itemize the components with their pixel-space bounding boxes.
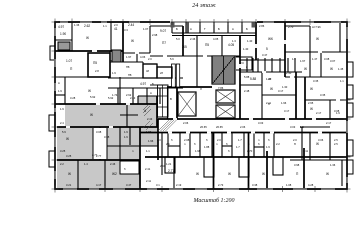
svg-text:п: п [294,142,296,146]
svg-text:2.5: 2.5 [334,138,338,142]
svg-text:Ж: Ж [310,87,313,91]
bathroom box B [157,67,172,78]
svg-text:3.47: 3.47 [262,53,268,57]
svg-text:2.46: 2.46 [110,162,116,166]
walls south room band [145,156,347,158]
svg-text:1.97: 1.97 [126,55,132,59]
svg-text:2.46: 2.46 [190,37,196,41]
svg-text:1.88: 1.88 [204,145,210,149]
svg-text:1.3: 1.3 [232,39,236,43]
svg-text:Ж: Ж [228,172,231,176]
windows in outer walls [55,22,347,189]
white hallway inside gray apartment [93,128,107,159]
svg-text:2.70: 2.70 [247,149,253,153]
svg-text:2.08: 2.08 [184,138,190,142]
walls mid-left block [87,53,89,77]
loggia dark vent marks [171,23,175,28]
svg-text:1.36: 1.36 [330,163,336,167]
svg-text:2.8: 2.8 [95,69,99,73]
svg-text:2.06: 2.06 [183,121,189,125]
walls right-mid block [246,58,248,72]
svg-text:2.98: 2.98 [152,33,158,37]
svg-text:5.9: 5.9 [62,130,66,134]
svg-text:А=7.96: А=7.96 [312,25,321,29]
svg-text:П7: П7 [162,41,166,45]
svg-text:ЖК: ЖК [268,37,273,41]
vent shaft dark box left [58,42,70,50]
interior partition walls [55,22,347,189]
storage closet thick box [88,53,110,77]
svg-text:А: А [58,81,60,85]
bottom-room closet boxes [165,157,283,177]
svg-text:Ж5: Ж5 [182,45,187,49]
wall top-left rooms [71,22,73,51]
svg-text:П5: П5 [93,61,97,65]
svg-text:А: А [232,27,234,31]
corridor walls [158,118,347,120]
svg-text:Ж: Ж [68,172,71,176]
svg-text:2.70: 2.70 [288,25,294,29]
svg-text:4.97: 4.97 [58,25,64,29]
svg-text:1.7: 1.7 [236,145,240,149]
walls of rooms under loggias [196,35,198,56]
outer wall of building [55,22,347,189]
svg-text:2.4: 2.4 [60,121,64,125]
svg-text:3.47: 3.47 [126,183,132,187]
svg-text:2.41: 2.41 [160,164,166,168]
svg-text:В: В [170,97,172,101]
door openings (white gaps) [66,40,340,133]
svg-text:1.30: 1.30 [282,85,288,89]
svg-text:1.21: 1.21 [166,162,172,166]
svg-text:П8: П8 [128,73,132,77]
svg-text:1.07: 1.07 [66,59,72,63]
svg-text:Ж2: Ж2 [112,172,117,176]
svg-text:1.67: 1.67 [300,59,306,63]
svg-text:2.17: 2.17 [326,121,332,125]
svg-text:1.1: 1.1 [340,79,344,83]
svg-text:1.9: 1.9 [60,107,64,111]
svg-text:3.03: 3.03 [290,125,296,129]
svg-text:3.17: 3.17 [278,89,284,93]
svg-text:Б: Б [218,27,220,31]
svg-text:Ж: Ж [88,89,91,93]
svg-text:1.96: 1.96 [148,139,154,143]
room area and dimension labels [58,23,344,187]
svg-text:Ж: Ж [90,113,93,117]
svg-text:1.6: 1.6 [292,57,296,61]
bathroom box A [143,64,157,78]
svg-text:1.5: 1.5 [300,125,304,129]
svg-text:4.06: 4.06 [140,55,146,59]
svg-text:Ж: Ж [270,87,273,91]
svg-text:4.97: 4.97 [140,82,146,86]
walls hall and shafts [110,61,143,63]
svg-text:5.92: 5.92 [108,96,114,100]
loggia strip thin outer edge [170,21,257,23]
svg-text:1.07: 1.07 [143,27,149,31]
svg-text:1.36: 1.36 [74,23,80,27]
svg-text:5.0: 5.0 [176,37,180,41]
utility cell block left of elevator [158,85,169,117]
svg-text:2.06: 2.06 [240,125,246,129]
left facade bay windows [49,46,55,167]
svg-text:Ж: Ж [131,39,134,43]
svg-text:3.08: 3.08 [104,135,110,139]
svg-text:1.45: 1.45 [338,67,344,71]
svg-text:2.77: 2.77 [168,169,174,173]
svg-text:Б: Б [246,27,248,31]
svg-text:1.9: 1.9 [266,145,270,149]
svg-text:П5: П5 [205,43,209,47]
svg-text:1.9: 1.9 [58,89,62,93]
right facade bay windows [347,62,353,174]
svg-text:Ж: Ж [310,107,313,111]
gray apartment floor fills [57,96,158,188]
svg-text:2.43: 2.43 [147,117,153,121]
svg-text:1.9: 1.9 [124,135,128,139]
svg-text:1.08: 1.08 [286,183,292,187]
svg-text:3.98: 3.98 [294,163,300,167]
svg-text:4.05: 4.05 [228,43,234,47]
svg-text:1.1: 1.1 [103,24,107,28]
svg-text:2.0: 2.0 [157,138,161,142]
walls inside gray apartment [156,96,158,127]
svg-text:2.0: 2.0 [217,138,221,142]
svg-text:26.65: 26.65 [200,125,207,129]
svg-text:3.08: 3.08 [96,130,102,134]
svg-text:1.4: 1.4 [84,162,88,166]
svg-text:2.2: 2.2 [60,162,64,166]
svg-text:2.0: 2.0 [148,57,152,61]
svg-text:3.1: 3.1 [156,183,160,187]
svg-text:А: А [150,91,152,95]
svg-text:Ж: Ж [196,172,199,176]
svg-text:Ж: Ж [316,142,319,146]
twin shaft columns by stair [172,64,176,87]
diagonal hatch at corridor west end [143,120,177,131]
svg-text:Ж: Ж [66,137,69,141]
svg-text:3.21: 3.21 [66,183,72,187]
svg-text:Ж: Ж [316,37,319,41]
svg-text:3.07: 3.07 [330,59,336,63]
svg-text:5.92: 5.92 [90,95,96,99]
svg-text:Масштаб 1:200: Масштаб 1:200 [192,197,234,204]
svg-text:2.1: 2.1 [166,142,170,146]
svg-text:3.38: 3.38 [252,183,258,187]
svg-text:2.0: 2.0 [240,61,244,65]
svg-text:3.03: 3.03 [258,121,264,125]
svg-text:1.96: 1.96 [146,130,152,134]
svg-text:1.7: 1.7 [238,138,242,142]
svg-text:2.77: 2.77 [96,154,102,158]
svg-text:1.30: 1.30 [266,77,272,81]
svg-text:Ж: Ж [326,172,329,176]
svg-text:1.98: 1.98 [195,149,201,153]
svg-text:Б: Б [152,82,154,86]
svg-text:5.88: 5.88 [244,75,250,79]
svg-text:24 этаж: 24 этаж [192,2,216,9]
stairwell with treads [212,56,235,84]
svg-text:Ж: Ж [304,67,307,71]
svg-text:1.9: 1.9 [336,111,340,115]
svg-text:1.47: 1.47 [312,57,318,61]
dimension ticks around building [52,19,351,193]
svg-text:1.11: 1.11 [303,149,309,153]
svg-text:3.35: 3.35 [320,93,326,97]
loggia cell dividers [171,22,173,33]
svg-text:2.41: 2.41 [145,167,151,171]
svg-text:1.96: 1.96 [281,101,287,105]
svg-text:2.73: 2.73 [218,183,224,187]
svg-text:3.35: 3.35 [313,79,319,83]
svg-text:П8: П8 [126,65,130,69]
svg-text:1.40: 1.40 [243,47,249,51]
svg-text:Ж: Ж [330,67,333,71]
svg-text:2.86: 2.86 [259,24,265,28]
svg-text:4.05: 4.05 [213,37,219,41]
walls top-right block [255,22,257,60]
svg-text:В: В [110,59,112,63]
svg-text:26.65: 26.65 [216,125,223,129]
svg-text:Б: Б [176,27,178,31]
svg-text:2б: 2б [160,71,163,75]
svg-text:2.0: 2.0 [293,138,297,142]
svg-text:2.17: 2.17 [316,111,322,115]
svg-text:2.0: 2.0 [114,23,118,27]
elevator shafts with cross marks [178,90,235,118]
svg-text:3.08: 3.08 [324,57,330,61]
svg-text:1.9: 1.9 [124,130,128,134]
svg-text:2.19: 2.19 [176,183,182,187]
svg-text:А: А [190,27,192,31]
svg-text:2.62: 2.62 [84,24,90,28]
svg-text:Ж: Ж [86,36,89,40]
svg-text:2.44: 2.44 [128,23,134,27]
svg-text:2.65: 2.65 [308,101,314,105]
svg-text:5.6: 5.6 [170,57,174,61]
vent shaft dark box upper [112,50,121,62]
svg-text:Л: Л [200,87,202,91]
svg-text:1.90: 1.90 [60,32,66,36]
svg-text:1.9: 1.9 [112,71,116,75]
svg-text:Ж: Ж [262,172,265,176]
svg-text:5.88: 5.88 [250,77,256,81]
svg-text:3.25: 3.25 [66,154,72,158]
svg-text:3.3: 3.3 [124,28,128,32]
svg-text:3.06: 3.06 [318,138,324,142]
hatched vent wedge in gray band [143,104,151,116]
svg-text:41: 41 [114,27,118,31]
svg-text:2.11: 2.11 [266,101,272,105]
thick apartment boundary walls [55,22,347,189]
svg-text:2.5: 2.5 [334,142,338,146]
svg-text:7.86: 7.86 [218,86,224,90]
svg-text:2.11: 2.11 [146,179,152,183]
svg-text:3.28: 3.28 [70,96,76,100]
svg-text:4б: 4б [146,69,149,73]
svg-text:2.48: 2.48 [244,89,250,93]
svg-text:4.28: 4.28 [308,183,314,187]
svg-text:4.17: 4.17 [96,183,102,187]
svg-text:2.2: 2.2 [276,142,280,146]
svg-text:1.40: 1.40 [247,39,253,43]
white bathroom in gray lower band [120,161,139,174]
svg-text:9.07: 9.07 [160,29,166,33]
svg-text:2.90: 2.90 [286,71,292,75]
svg-text:1.1: 1.1 [146,149,150,153]
svg-text:5: 5 [266,47,268,51]
svg-text:3.17: 3.17 [284,109,290,113]
svg-text:2.43: 2.43 [130,96,136,100]
walls bottom room dividers [173,157,175,189]
walls elevator core [176,87,178,119]
svg-text:3.25: 3.25 [60,149,66,153]
